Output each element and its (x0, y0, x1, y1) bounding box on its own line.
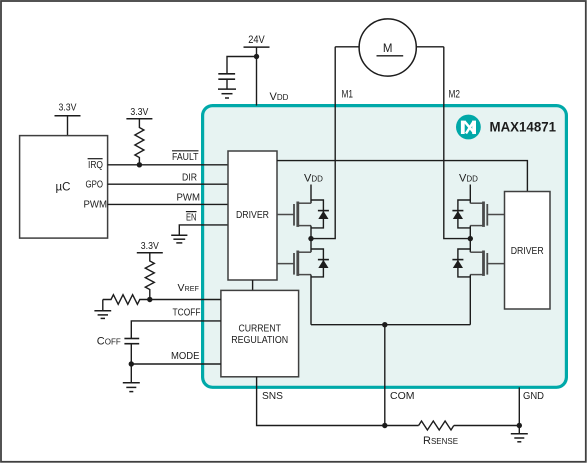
supply 3.3V bar (VREF) (137, 252, 163, 254)
svg-text:M: M (383, 43, 393, 55)
ground (24V bypass) (218, 89, 236, 98)
svg-text:GND: GND (523, 391, 544, 402)
IC body MAX14871 (203, 106, 567, 388)
supply 24V bar (244, 46, 270, 48)
node FAULT junction (137, 162, 142, 167)
svg-text:VDD: VDD (304, 173, 323, 185)
svg-text:24V: 24V (248, 34, 265, 46)
wire low-side source rail (311, 324, 470, 326)
transistor Q2 low-side left (277, 251, 311, 276)
supply 3.3V bar (pull-up) (126, 118, 152, 120)
wire capacitor to ground (226, 79, 228, 89)
wire Q3 source to node (469, 226, 471, 239)
wire Q4 source down to rail (469, 275, 471, 325)
wire Q2 source down to rail (310, 275, 312, 325)
resistor (VREF top divider) (145, 253, 154, 300)
svg-text:EN: EN (186, 213, 197, 224)
resistor RSENSE (419, 421, 454, 430)
transistor Q4 low-side right (470, 251, 504, 276)
supply 3.3V bar (uC) (55, 115, 81, 117)
svg-text:TCOFF: TCOFF (173, 307, 201, 318)
capacitor (24V bypass) (218, 74, 235, 79)
wire PWM (108, 203, 228, 205)
wire 3.3V to uC (67, 116, 69, 136)
svg-text:3.3V: 3.3V (141, 240, 159, 252)
wire 24V rail down to VDD pin (256, 47, 258, 105)
ground (GND) (511, 434, 528, 442)
svg-text:FAULT: FAULT (172, 152, 199, 163)
svg-text:MAX14871: MAX14871 (490, 120, 557, 135)
wire VDD stub (right bridge) (469, 185, 471, 204)
motor M (359, 19, 416, 76)
resistor (VREF bottom divider) (103, 295, 150, 305)
wire GND pin (518, 387, 520, 433)
diode D4 body (low-side right) (458, 249, 470, 277)
node MODE junction (129, 361, 134, 366)
node M2 midpoint (468, 236, 473, 241)
Maxim logo (456, 115, 481, 140)
node COM bottom junction (382, 423, 387, 428)
svg-text:VREF: VREF (178, 282, 200, 294)
wire driver to current regulation (252, 280, 254, 290)
svg-text:3.3V: 3.3V (130, 106, 148, 118)
wire EN (179, 225, 228, 235)
svg-text:DRIVER: DRIVER (511, 245, 544, 257)
svg-text:3.3V: 3.3V (59, 102, 77, 114)
wire VREF (150, 299, 221, 301)
wire M1 (311, 47, 335, 239)
svg-text:CURRENT: CURRENT (238, 323, 281, 335)
svg-text:M2: M2 (449, 89, 461, 101)
svg-text:VDD: VDD (270, 91, 289, 103)
wire node to Q4 drain (469, 239, 471, 253)
svg-text:M1: M1 (342, 89, 354, 101)
node GND junction (517, 423, 522, 428)
transistor Q1 high-side left (277, 202, 311, 227)
wire RSENSE to GND (454, 425, 520, 427)
svg-text:PWM: PWM (177, 192, 201, 203)
wire driver feed to right driver (277, 161, 527, 192)
svg-text:VDD: VDD (459, 173, 478, 185)
svg-text:GPO: GPO (86, 179, 104, 190)
diode D1 body (high-side left) (311, 200, 323, 228)
diode D2 body (low-side left) (311, 249, 323, 277)
node 24V junction (254, 54, 259, 59)
svg-text:RSENSE: RSENSE (423, 435, 458, 447)
svg-text:MODE: MODE (171, 351, 200, 362)
wire VDD stub (left bridge) (310, 185, 312, 204)
svg-text:DRIVER: DRIVER (236, 209, 269, 221)
svg-text:SNS: SNS (262, 391, 283, 402)
microcontroller uC block (20, 136, 108, 239)
svg-text:DIR: DIR (182, 172, 197, 183)
wire Q1 source to node (310, 226, 312, 239)
ground (EN) (171, 235, 187, 243)
wire SNS (257, 377, 419, 426)
wire COFF to MODE node (130, 344, 132, 364)
wire COM (384, 325, 386, 426)
wire motor to M1 (335, 46, 359, 48)
diode D3 body (high-side right) (458, 200, 470, 228)
resistor (FAULT pull-up) (135, 119, 144, 165)
node VREF junction (147, 297, 152, 302)
svg-text:PWM: PWM (84, 200, 108, 211)
wire DIR (108, 183, 228, 185)
ground (VREF divider) (102, 300, 104, 311)
svg-text:REGULATION: REGULATION (231, 334, 288, 346)
capacitor COFF (124, 339, 139, 344)
wire M2 (444, 47, 471, 239)
node COM rail junction (382, 322, 387, 327)
ground (COFF) (130, 364, 132, 383)
svg-text:COFF: COFF (97, 335, 121, 347)
wire 24V to bypass capacitor (227, 57, 257, 74)
svg-text:µC: µC (56, 182, 71, 194)
wire motor to M2 (416, 46, 444, 48)
driver block left (228, 151, 277, 280)
svg-text:COM: COM (390, 391, 415, 402)
current regulation block (221, 290, 299, 376)
wire TCOFF (131, 321, 221, 338)
wire node to Q2 drain (310, 239, 312, 253)
driver block right (505, 192, 551, 310)
node M1 midpoint (308, 236, 313, 241)
svg-text:IRQ: IRQ (88, 160, 103, 171)
wire FAULT (108, 164, 228, 166)
transistor Q3 high-side right (470, 202, 504, 227)
wire MODE (131, 363, 221, 365)
